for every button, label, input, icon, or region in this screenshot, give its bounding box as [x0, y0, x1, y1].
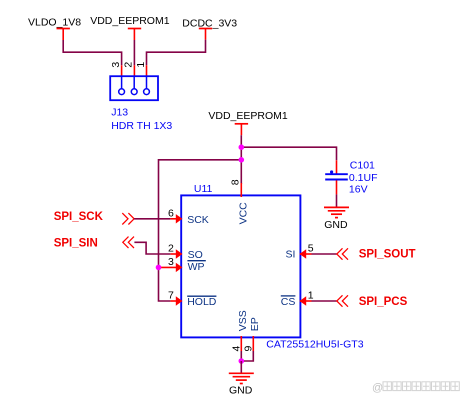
junction VDD-WP rail [239, 157, 245, 163]
svg-text:SPI_SIN: SPI_SIN [54, 237, 98, 249]
connector J13 pin 3 lead [121, 65, 123, 76]
pin 9 EP lead [242, 317, 261, 351]
svg-text:@: @ [372, 382, 383, 394]
port SPI_SIN [54, 237, 134, 250]
wire pin1 CS to port [312, 300, 337, 302]
power port VDD_EEPROM1 (above U11) [208, 110, 288, 135]
svg-text:HOLD: HOLD [187, 296, 217, 308]
port SPI_SOUT [337, 248, 416, 260]
capacitor C101 [325, 160, 348, 194]
wire VSS to GND [240, 351, 242, 361]
junction VSS-EP [239, 358, 245, 364]
svg-text:CAT25512HU5I-GT3: CAT25512HU5I-GT3 [266, 338, 363, 350]
junction VDD-C101 [239, 144, 245, 150]
svg-text:16V: 16V [349, 184, 368, 196]
svg-text:VDD_EEPROM1: VDD_EEPROM1 [90, 15, 170, 27]
svg-text:1: 1 [308, 290, 314, 302]
wire pin5 SI to port [312, 253, 337, 255]
pin 4 VSS lead [231, 310, 250, 351]
watermark [372, 382, 459, 394]
wire DCDC_3V3 to J13 pin1 [147, 40, 206, 66]
svg-text:J13: J13 [111, 107, 128, 119]
svg-text:GND: GND [324, 219, 348, 231]
svg-text:HDR TH 1X3: HDR TH 1X3 [111, 120, 172, 132]
wire SPI_SIN to pin2 SO [134, 242, 170, 254]
svg-text:EP: EP [249, 317, 261, 331]
wire VDD to WP and HOLD [159, 160, 242, 301]
svg-text:3: 3 [168, 256, 174, 268]
pin 7 HOLD lead [168, 290, 217, 308]
svg-text:DCDC_3V3: DCDC_3V3 [182, 17, 237, 29]
svg-text:SPI_SCK: SPI_SCK [54, 211, 104, 223]
svg-text:3: 3 [110, 62, 122, 68]
svg-text:9: 9 [242, 346, 254, 352]
power port VDD_EEPROM1 (top) [90, 15, 170, 40]
ground GND (U11) [229, 373, 254, 396]
svg-text:SCK: SCK [187, 214, 209, 226]
pin 8 VCC lead [230, 179, 250, 224]
svg-text:U11: U11 [194, 183, 213, 195]
port SPI_PCS [337, 295, 408, 308]
wire VDD_EEPROM1 to J13 pin2 [133, 40, 135, 65]
pin 3 WP lead [159, 256, 206, 273]
svg-text:SPI_SOUT: SPI_SOUT [359, 248, 416, 260]
svg-text:4: 4 [231, 346, 243, 352]
svg-text:2: 2 [123, 62, 135, 68]
svg-text:GND: GND [229, 385, 253, 397]
wire VDD to C101 [241, 147, 336, 160]
pin 5 SI lead [285, 243, 313, 261]
IC U11 body [181, 195, 300, 337]
svg-text:7: 7 [168, 290, 174, 302]
svg-text:SPI_PCS: SPI_PCS [359, 296, 408, 308]
svg-text:VCC: VCC [237, 202, 249, 225]
svg-text:VLDO_1V8: VLDO_1V8 [28, 17, 81, 29]
pin 6 SCK lead [168, 208, 209, 226]
power port VLDO_1V8 [28, 17, 81, 40]
wire C101 to GND [336, 194, 338, 207]
connector J13 pin 1 lead [146, 65, 148, 76]
wire EP to VSS junction [241, 351, 253, 361]
wire VDD rail down to U11 VCC [240, 135, 242, 184]
pin 2 SO lead [168, 243, 203, 261]
wire VLDO_1V8 to J13 pin3 [63, 40, 121, 65]
ground GND (C101) [324, 207, 349, 230]
svg-text:C101: C101 [350, 160, 375, 172]
junction WP rail [156, 265, 162, 271]
svg-text:VSS: VSS [237, 310, 249, 331]
svg-text:SI: SI [285, 249, 295, 261]
svg-text:1: 1 [135, 62, 147, 68]
svg-text:CS: CS [281, 296, 296, 308]
svg-text:8: 8 [230, 179, 242, 185]
svg-text:0.1UF: 0.1UF [349, 172, 378, 184]
pin 1 CS lead [281, 290, 314, 308]
power port DCDC_3V3 [182, 17, 237, 39]
wire SPI_SCK to pin6 [134, 218, 170, 220]
svg-text:6: 6 [168, 208, 174, 220]
wire junction to GND [240, 361, 242, 373]
svg-text:VDD_EEPROM1: VDD_EEPROM1 [208, 110, 288, 122]
svg-text:5: 5 [308, 243, 314, 255]
svg-text:2: 2 [168, 243, 174, 255]
svg-text:WP: WP [188, 261, 205, 273]
connector J13 body [110, 76, 158, 100]
connector J13 pin 2 lead [133, 65, 135, 76]
port SPI_SCK [54, 211, 134, 225]
svg-text:SO: SO [188, 249, 203, 261]
